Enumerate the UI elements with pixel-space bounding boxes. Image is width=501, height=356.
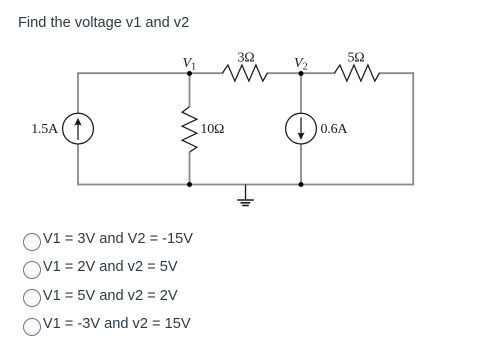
node V1 label xyxy=(183,56,197,73)
label 3-ohm value xyxy=(237,50,254,65)
wire left rail upper segment (above current source I1) xyxy=(77,72,79,113)
node dot V1 top xyxy=(187,71,192,76)
svg-text:V1: V1 xyxy=(183,56,197,73)
wire node V1 to 10-ohm resistor top xyxy=(189,73,191,107)
ground bar 3 xyxy=(242,205,249,207)
node dot V2 top xyxy=(299,71,304,76)
label 5-ohm value xyxy=(347,50,364,65)
ground stem xyxy=(245,185,247,200)
label 10-ohm value xyxy=(200,122,224,137)
answer option 1 xyxy=(23,233,194,251)
wire top-middle segment (between 3-ohm and 5-ohm resistors) xyxy=(268,72,335,74)
ground bar 1 xyxy=(237,199,254,201)
node dot V1 bottom xyxy=(187,182,192,187)
resistor R3 5-ohm (zigzag on top rail right) xyxy=(335,65,380,81)
wire left rail lower segment (below current source I1) xyxy=(77,144,79,184)
node V2 label xyxy=(294,56,308,73)
svg-text:V2: V2 xyxy=(294,56,308,73)
current source I1 arrow (pointing up) xyxy=(74,118,81,140)
current source I1 1.5A (circle) xyxy=(63,113,94,144)
resistor R1 3-ohm (zigzag on top rail) xyxy=(223,65,268,81)
answer option 4 xyxy=(23,318,191,336)
wire top-left segment (top rail from left corner to 3-ohm resistor) xyxy=(78,72,223,74)
wire top-right segment (from 5-ohm resistor to right corner) xyxy=(380,72,414,74)
resistor R2 10-ohm (vertical zigzag) xyxy=(182,107,197,152)
node dot V2 bottom xyxy=(299,182,304,187)
label 1.5A xyxy=(31,122,59,137)
svg-text:5Ω: 5Ω xyxy=(347,50,364,65)
svg-text:1.5A: 1.5A xyxy=(31,122,59,137)
wire 10-ohm resistor bottom to bottom rail xyxy=(189,152,191,184)
svg-text:0.6A: 0.6A xyxy=(321,122,349,137)
wire current source I2 bottom to bottom rail xyxy=(300,144,302,184)
wire node V2 to current source I2 top xyxy=(300,73,302,113)
current source I2 0.6A (circle) xyxy=(286,113,317,144)
question title xyxy=(18,15,189,31)
wire bottom rail xyxy=(78,184,413,186)
answer option 2 xyxy=(23,261,178,279)
svg-text:10Ω: 10Ω xyxy=(200,122,224,137)
wire right side (right rail) xyxy=(412,73,414,184)
label 0.6A xyxy=(321,122,349,137)
svg-text:3Ω: 3Ω xyxy=(237,50,254,65)
ground bar 2 xyxy=(241,202,251,204)
answer option 3 xyxy=(23,289,178,307)
current source I2 arrow (pointing down) xyxy=(297,117,304,140)
